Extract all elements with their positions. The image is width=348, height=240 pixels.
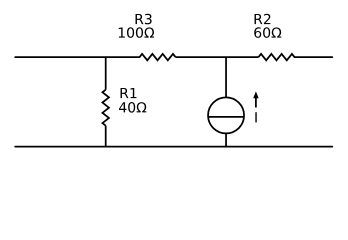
wire top right segment (294, 56, 332, 58)
label R3 (136, 14, 152, 25)
label 40ohm (119, 102, 146, 113)
wire top middle segment (176, 56, 259, 58)
current source bar (208, 116, 244, 118)
label 60ohm (254, 27, 281, 38)
wire source branch lower (225, 133, 227, 146)
resistor R1 (102, 90, 109, 126)
bottom wire (15, 146, 332, 148)
wire source branch upper (225, 57, 227, 97)
resistor R3 (140, 54, 176, 60)
resistor R2 (259, 54, 295, 60)
label R2 (255, 14, 271, 24)
label R1 (121, 88, 137, 98)
wire left branch lower (105, 126, 107, 147)
top wire left segment (15, 56, 139, 58)
current arrow stem (255, 97, 257, 108)
current source U1 circle (208, 97, 244, 133)
current arrow head (253, 91, 259, 98)
wire left branch upper (105, 57, 107, 90)
label 100ohm (119, 27, 154, 38)
label I (255, 112, 256, 122)
